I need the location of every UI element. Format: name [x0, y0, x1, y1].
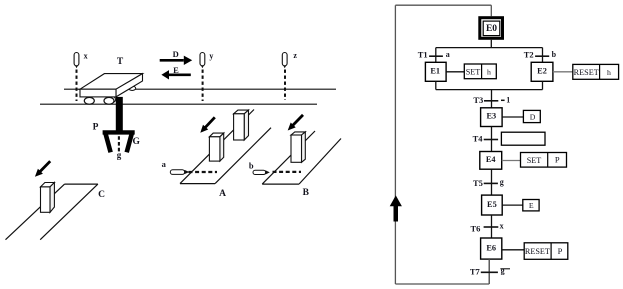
- sensor z: [282, 53, 287, 69]
- svg-text:T3: T3: [473, 95, 483, 105]
- svg-text:RESET: RESET: [574, 68, 599, 77]
- wire E2 to action: [553, 71, 573, 73]
- sensor z dashed beam: [284, 70, 286, 101]
- label T5: [473, 178, 483, 188]
- svg-text:D: D: [173, 49, 179, 59]
- sensor y dashed beam: [202, 70, 204, 102]
- svg-text:P: P: [555, 155, 560, 165]
- initial step E0: [480, 18, 503, 39]
- flow arrow up: [390, 195, 402, 221]
- label E: [173, 65, 179, 75]
- wire T2 branch: [542, 48, 544, 63]
- svg-text:y: y: [209, 51, 213, 60]
- receptivity g: [500, 177, 504, 186]
- label z: [293, 51, 297, 60]
- svg-text:E6: E6: [486, 243, 496, 252]
- station A box 1 (front): [209, 133, 223, 161]
- trolley front wheel 2: [104, 97, 114, 104]
- label b: [249, 160, 254, 170]
- svg-text:T2: T2: [524, 49, 534, 59]
- station A platform: [180, 110, 271, 184]
- step E3: [481, 108, 503, 127]
- wire E3 to action: [502, 116, 523, 118]
- sensor y: [200, 53, 205, 69]
- svg-text:D: D: [530, 112, 536, 121]
- svg-text:g: g: [117, 150, 122, 160]
- label T3: [473, 95, 483, 105]
- transition T7: [481, 271, 498, 273]
- label G: [133, 137, 141, 147]
- wire T1 branch: [435, 48, 437, 63]
- label T: [117, 57, 124, 67]
- trolley front wheel 1: [84, 97, 94, 104]
- wire E1 to action: [446, 71, 464, 73]
- svg-text:E0: E0: [486, 24, 497, 34]
- svg-text:h: h: [607, 68, 611, 77]
- wire E5 down: [491, 215, 493, 238]
- gripper center dashed line: [118, 136, 120, 151]
- step E6: [481, 238, 502, 259]
- step E5: [482, 195, 503, 215]
- convergence line: [436, 89, 543, 91]
- wire E6 to action: [502, 249, 524, 251]
- arrow D (move right): [160, 56, 193, 65]
- transition T5: [484, 182, 498, 184]
- svg-text:b: b: [552, 50, 557, 59]
- sensor a: [170, 170, 189, 175]
- station C box: [41, 183, 55, 213]
- svg-text:RESET: RESET: [525, 247, 550, 256]
- transition T6: [484, 226, 499, 228]
- wire loop to E0: [490, 5, 492, 16]
- empty action box at T4: [501, 132, 545, 145]
- svg-text:C: C: [98, 190, 105, 200]
- trolley rear wheel (right, behind plate): [129, 86, 136, 90]
- divergence line: [436, 47, 543, 49]
- svg-text:G: G: [133, 137, 141, 147]
- svg-text:E4: E4: [486, 155, 496, 164]
- label C: [98, 190, 105, 200]
- receptivity x: [500, 221, 504, 230]
- sensor x: [74, 53, 79, 69]
- wire E5 to action: [502, 204, 523, 206]
- label T1: [418, 49, 428, 59]
- label y: [209, 51, 213, 60]
- step E4: [480, 152, 502, 170]
- label g (gripper sensor): [117, 150, 122, 160]
- station C arrow: [35, 161, 50, 177]
- wire E3 down: [491, 127, 493, 152]
- return loop wire (left): [394, 5, 396, 284]
- svg-text:E2: E2: [537, 67, 547, 76]
- wire E2 down: [542, 81, 544, 89]
- svg-text:1: 1: [506, 96, 510, 105]
- action E box: [523, 200, 539, 211]
- svg-text:x: x: [84, 52, 88, 61]
- sensor x dashed beam: [76, 70, 78, 102]
- receptivity a: [446, 50, 450, 59]
- wire convergence down: [491, 90, 493, 108]
- label a: [162, 159, 167, 169]
- transition T2: [535, 55, 549, 57]
- svg-text:T4: T4: [473, 133, 484, 143]
- action SET P: [521, 153, 567, 168]
- station B arrow: [288, 115, 303, 131]
- trolley rear wheel (near pole): [108, 97, 115, 103]
- label A: [219, 189, 226, 199]
- action D box: [523, 110, 540, 122]
- action RESET h: [573, 64, 619, 79]
- receptivity b: [552, 50, 557, 59]
- station B box: [291, 132, 305, 162]
- receptivity g-bar: [500, 266, 510, 275]
- sensor b: [253, 170, 270, 174]
- svg-text:E3: E3: [486, 112, 496, 121]
- label D: [173, 49, 179, 59]
- receptivity =1 dash: [501, 99, 505, 101]
- svg-text:A: A: [219, 189, 226, 199]
- label T6: [471, 224, 481, 234]
- return loop wire (bottom): [395, 283, 489, 285]
- wire E4 to action: [502, 160, 521, 162]
- transition T1: [429, 55, 443, 57]
- transition T4: [484, 139, 498, 141]
- svg-text:SET: SET: [527, 156, 542, 165]
- svg-text:T: T: [117, 57, 124, 67]
- pole P (vertical bar): [116, 97, 123, 132]
- label x: [84, 52, 88, 61]
- wire E4 down: [491, 169, 493, 195]
- svg-text:g: g: [501, 266, 505, 275]
- station C platform: [6, 184, 98, 240]
- return loop wire (bottom-right riser): [488, 259, 490, 284]
- label T7: [470, 267, 481, 277]
- svg-text:E: E: [173, 65, 179, 75]
- svg-text:E5: E5: [487, 200, 497, 209]
- svg-text:g: g: [500, 177, 504, 186]
- svg-text:T5: T5: [473, 178, 483, 188]
- station A box 2 (back): [234, 110, 249, 140]
- label P: [93, 123, 99, 133]
- step E1: [425, 62, 446, 81]
- action SET h: [464, 64, 496, 79]
- wire E1 down: [435, 81, 437, 89]
- svg-text:a: a: [162, 159, 167, 169]
- station A dashed mark: [189, 171, 218, 173]
- receptivity 1: [506, 96, 510, 105]
- label B: [303, 188, 310, 198]
- svg-text:E: E: [529, 201, 534, 210]
- wire E6 down: [488, 259, 490, 284]
- svg-text:SET: SET: [466, 67, 481, 76]
- svg-text:T7: T7: [470, 267, 481, 277]
- trolley T plate: [80, 74, 143, 97]
- station B platform: [262, 131, 341, 184]
- svg-text:P: P: [93, 123, 99, 133]
- svg-text:z: z: [293, 51, 297, 60]
- rail upper line: [64, 88, 336, 90]
- gripper G claw: [103, 132, 135, 152]
- svg-text:b: b: [249, 160, 254, 170]
- transition T3: [484, 100, 498, 102]
- station A arrow: [200, 117, 215, 133]
- wire E0 to divergence: [490, 40, 492, 48]
- svg-text:T1: T1: [418, 49, 428, 59]
- arrow E (move left): [161, 70, 190, 79]
- svg-text:a: a: [446, 50, 450, 59]
- station B dashed mark: [273, 171, 302, 173]
- step E2: [531, 62, 553, 81]
- svg-text:B: B: [303, 188, 310, 198]
- svg-text:x: x: [500, 221, 504, 230]
- rail lower line: [40, 103, 317, 105]
- label T2: [524, 49, 534, 59]
- return loop wire (top): [395, 4, 491, 6]
- svg-text:h: h: [487, 67, 491, 76]
- svg-text:E1: E1: [430, 67, 440, 76]
- label T4: [473, 133, 484, 143]
- action RESET P: [524, 243, 568, 259]
- svg-text:P: P: [558, 246, 563, 256]
- svg-text:T6: T6: [471, 224, 481, 234]
